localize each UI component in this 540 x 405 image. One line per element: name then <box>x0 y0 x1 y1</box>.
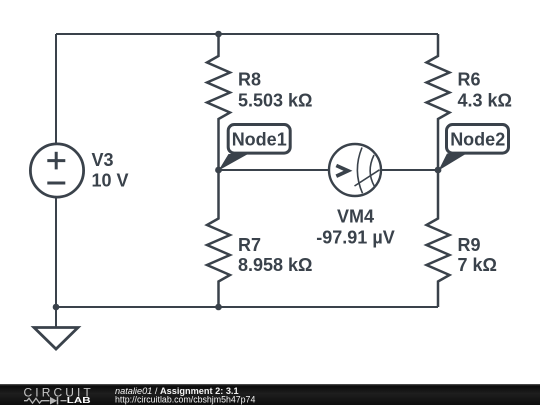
svg-text:4.3 kΩ: 4.3 kΩ <box>458 91 512 111</box>
svg-text:5.503 kΩ: 5.503 kΩ <box>238 91 313 111</box>
svg-text:R8: R8 <box>238 70 261 90</box>
svg-text:R7: R7 <box>238 235 261 255</box>
svg-text:-97.91 µV: -97.91 µV <box>316 227 394 247</box>
svg-text:VM4: VM4 <box>337 207 374 227</box>
svg-text:10 V: 10 V <box>92 171 129 191</box>
svg-text:8.958 kΩ: 8.958 kΩ <box>238 255 313 275</box>
svg-text:V3: V3 <box>92 150 114 170</box>
svg-text:Node2: Node2 <box>450 130 505 150</box>
svg-text:7 kΩ: 7 kΩ <box>458 255 497 275</box>
svg-text:LAB: LAB <box>67 396 91 405</box>
svg-text:R9: R9 <box>458 235 481 255</box>
svg-text:http://circuitlab.com/cbshjm5h: http://circuitlab.com/cbshjm5h47p74 <box>115 395 255 405</box>
svg-text:R6: R6 <box>458 70 481 90</box>
svg-text:Node1: Node1 <box>232 130 287 150</box>
